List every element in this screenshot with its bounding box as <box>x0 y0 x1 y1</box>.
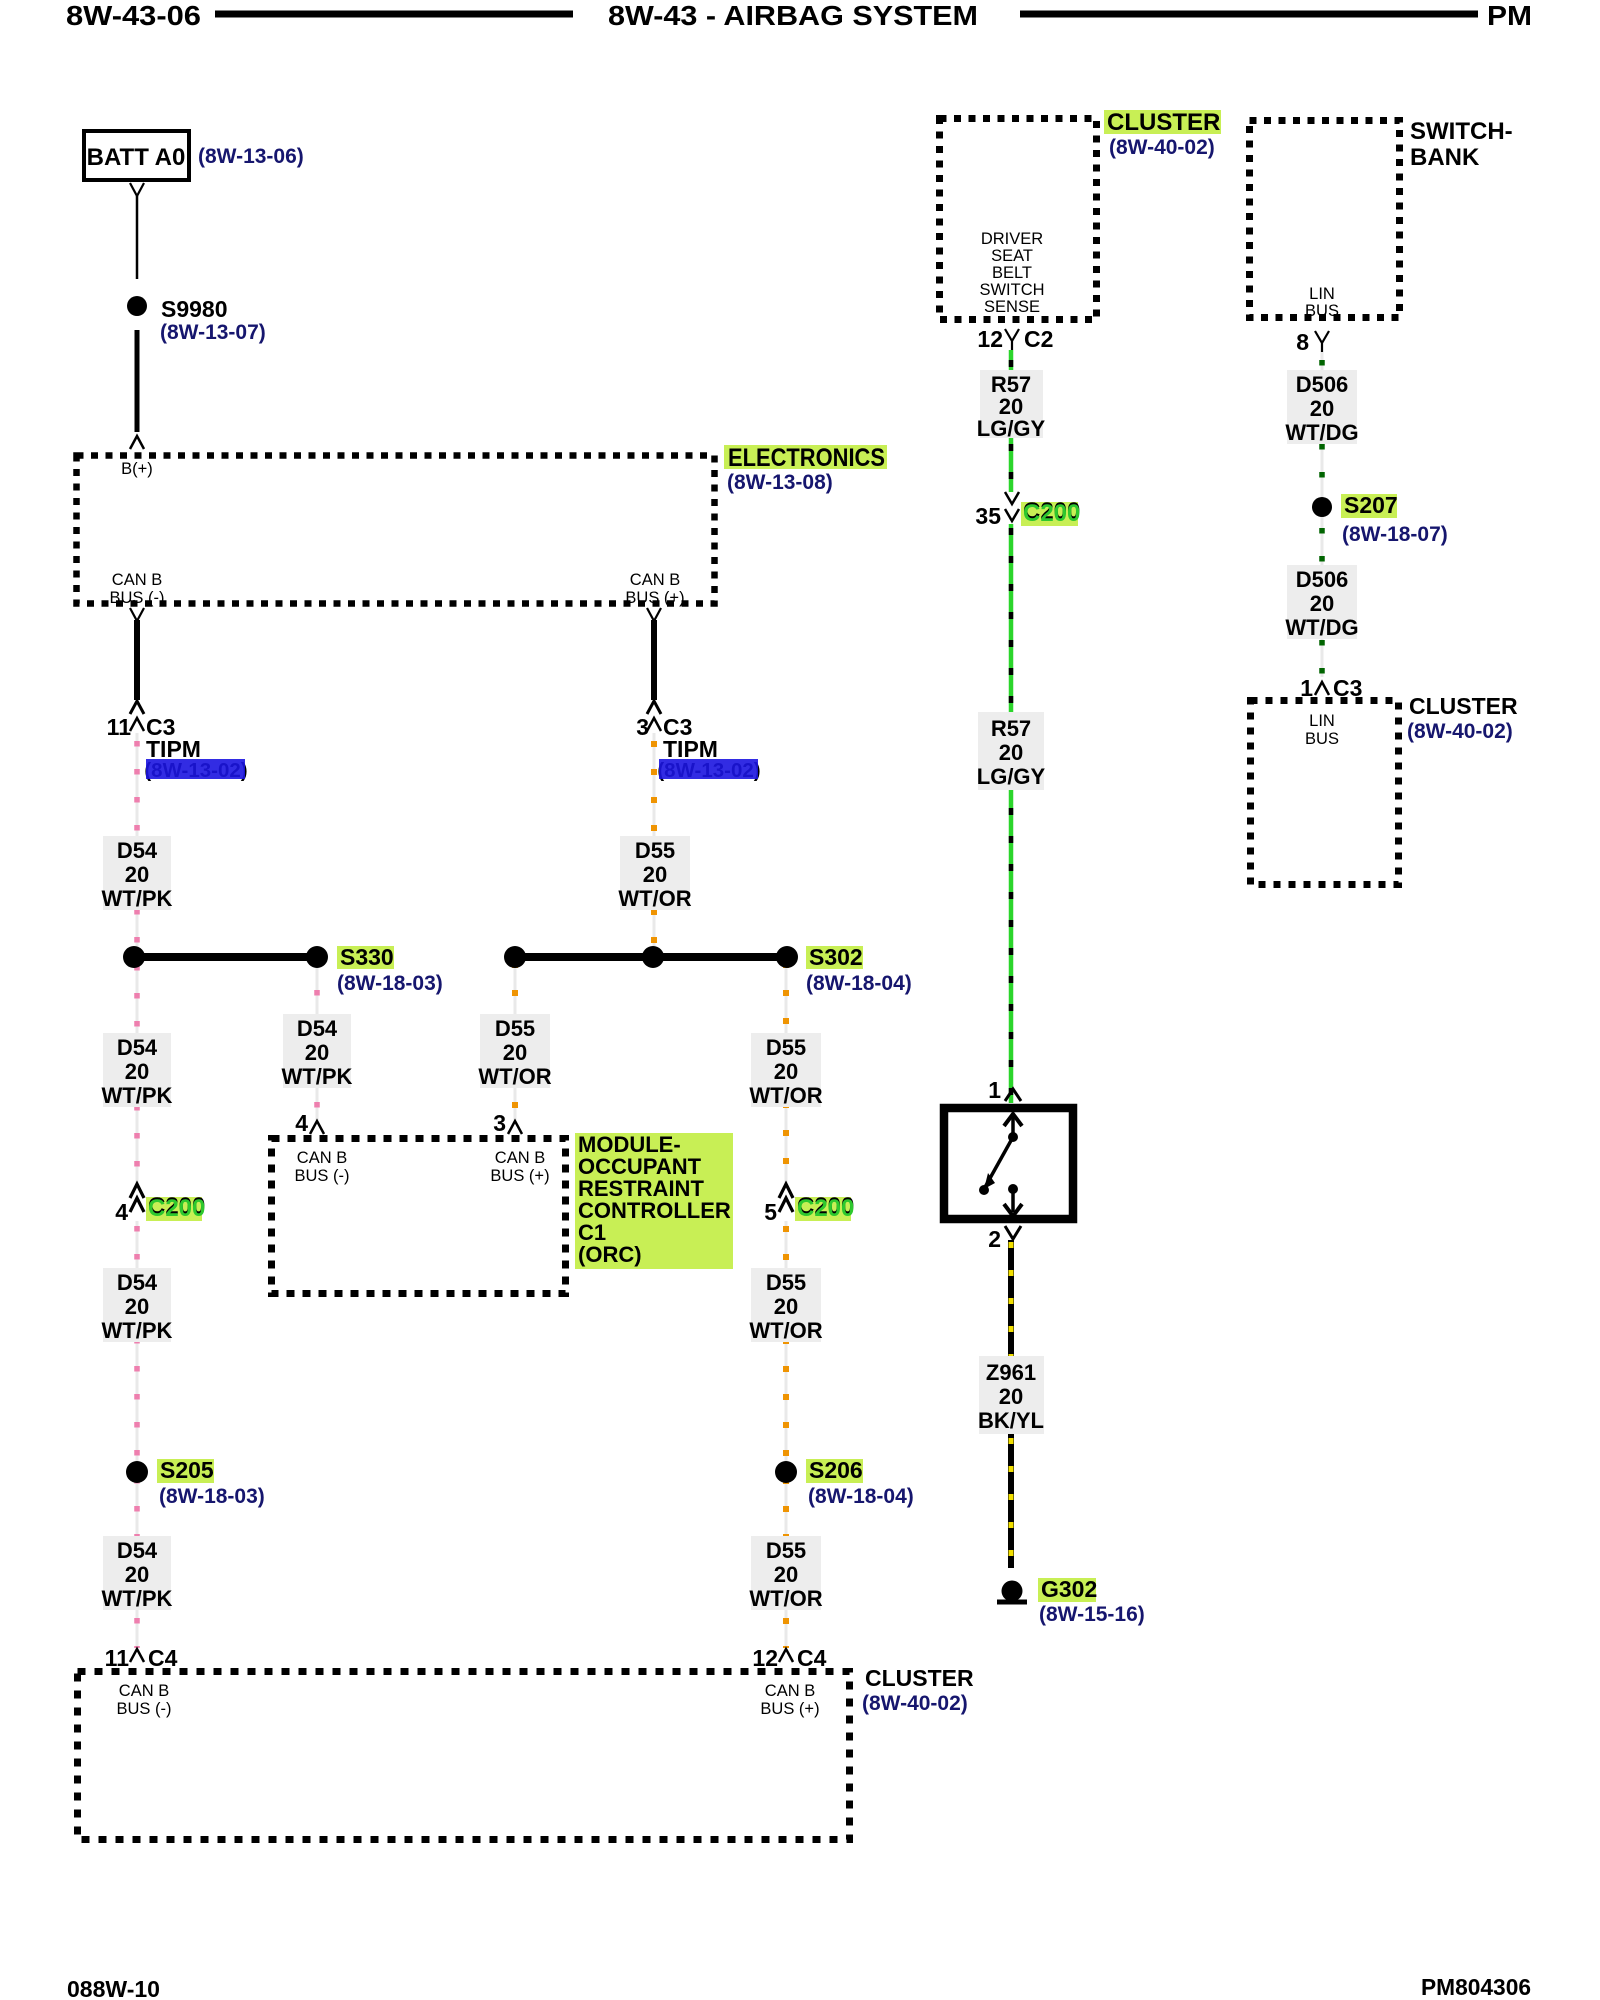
svg-text:BUS (-): BUS (-) <box>117 1700 172 1718</box>
svg-text:B(+): B(+) <box>121 460 153 478</box>
svg-text:11: 11 <box>107 714 132 740</box>
svg-text:20: 20 <box>305 1040 329 1065</box>
svg-text:D506: D506 <box>1296 372 1349 397</box>
svg-text:CAN B: CAN B <box>112 571 162 589</box>
svg-text:20: 20 <box>643 862 667 887</box>
svg-text:WT/PK: WT/PK <box>102 1083 173 1108</box>
svg-text:D54: D54 <box>117 1538 158 1563</box>
svg-text:(8W-18-03): (8W-18-03) <box>337 972 443 995</box>
svg-text:(8W-40-02): (8W-40-02) <box>862 1692 968 1715</box>
svg-text:SWITCH: SWITCH <box>979 281 1044 299</box>
svg-text:D506: D506 <box>1296 567 1349 592</box>
svg-text:PM804306: PM804306 <box>1421 1974 1531 2000</box>
svg-text:WT/OR: WT/OR <box>749 1318 822 1343</box>
svg-text:20: 20 <box>774 1562 798 1587</box>
svg-text:20: 20 <box>774 1294 798 1319</box>
svg-text:WT/DG: WT/DG <box>1285 615 1358 640</box>
svg-text:DRIVER: DRIVER <box>981 230 1043 248</box>
svg-text:D54: D54 <box>117 1035 158 1060</box>
svg-text:D55: D55 <box>766 1270 806 1295</box>
svg-text:LIN: LIN <box>1309 285 1335 303</box>
svg-text:SWITCH-: SWITCH- <box>1410 118 1513 145</box>
svg-text:C4: C4 <box>797 1645 827 1671</box>
svg-text:WT/PK: WT/PK <box>102 1318 173 1343</box>
svg-text:20: 20 <box>774 1059 798 1084</box>
svg-text:1: 1 <box>988 1077 1001 1103</box>
svg-text:S330: S330 <box>340 944 394 970</box>
svg-text:CLUSTER: CLUSTER <box>1409 693 1518 719</box>
svg-text:WT/OR: WT/OR <box>618 886 691 911</box>
svg-text:2: 2 <box>988 1226 1001 1252</box>
svg-text:4: 4 <box>115 1199 128 1225</box>
svg-text:WT/PK: WT/PK <box>282 1064 353 1089</box>
svg-text:CAN B: CAN B <box>297 1149 347 1167</box>
svg-text:CLUSTER: CLUSTER <box>1107 109 1220 136</box>
svg-text:20: 20 <box>125 1294 149 1319</box>
svg-text:8W-43 - AIRBAG SYSTEM: 8W-43 - AIRBAG SYSTEM <box>608 0 978 31</box>
svg-text:11: 11 <box>105 1645 130 1671</box>
svg-text:8W-43-06: 8W-43-06 <box>66 0 201 31</box>
svg-text:4: 4 <box>295 1110 308 1136</box>
svg-text:BUS (-): BUS (-) <box>110 589 165 607</box>
svg-text:SENSE: SENSE <box>984 298 1040 316</box>
svg-text:BANK: BANK <box>1410 144 1480 171</box>
svg-text:20: 20 <box>1310 591 1334 616</box>
svg-text:(8W-18-04): (8W-18-04) <box>806 972 912 995</box>
svg-text:WT/PK: WT/PK <box>102 1586 173 1611</box>
svg-text:C4: C4 <box>148 1645 178 1671</box>
svg-text:20: 20 <box>125 1059 149 1084</box>
svg-text:(8W-18-07): (8W-18-07) <box>1342 523 1448 546</box>
svg-text:20: 20 <box>999 740 1023 765</box>
svg-text:20: 20 <box>125 1562 149 1587</box>
svg-text:S205: S205 <box>160 1457 214 1483</box>
svg-text:CAN B: CAN B <box>630 571 680 589</box>
svg-text:D55: D55 <box>495 1016 535 1041</box>
svg-text:20: 20 <box>125 862 149 887</box>
svg-text:LG/GY: LG/GY <box>977 764 1046 789</box>
svg-text:BUS (+): BUS (+) <box>760 1700 819 1718</box>
svg-text:8: 8 <box>1296 329 1309 355</box>
svg-text:PM: PM <box>1487 0 1532 31</box>
svg-text:(ORC): (ORC) <box>578 1242 642 1267</box>
svg-text:3: 3 <box>636 714 649 740</box>
svg-text:35: 35 <box>975 503 1001 529</box>
svg-text:088W-10: 088W-10 <box>67 1976 160 2000</box>
svg-text:S9980: S9980 <box>161 296 228 322</box>
svg-text:BK/YL: BK/YL <box>978 1408 1044 1433</box>
svg-text:BUS (+): BUS (+) <box>490 1167 549 1185</box>
svg-text:D54: D54 <box>297 1016 338 1041</box>
svg-text:20: 20 <box>999 1384 1023 1409</box>
svg-text:S302: S302 <box>809 944 863 970</box>
svg-text:BELT: BELT <box>992 264 1032 282</box>
svg-text:SEAT: SEAT <box>991 247 1033 265</box>
svg-text:20: 20 <box>503 1040 527 1065</box>
svg-text:12: 12 <box>977 326 1003 352</box>
svg-text:D54: D54 <box>117 1270 158 1295</box>
svg-text:BUS: BUS <box>1305 730 1339 748</box>
svg-text:D54: D54 <box>117 838 158 863</box>
svg-text:CAN B: CAN B <box>119 1682 169 1700</box>
svg-text:C200: C200 <box>1023 500 1080 527</box>
svg-text:(8W-13-08): (8W-13-08) <box>727 471 833 494</box>
svg-text:BUS (+): BUS (+) <box>625 589 684 607</box>
svg-text:(8W-13-06): (8W-13-06) <box>198 145 304 168</box>
svg-text:LIN: LIN <box>1309 712 1335 730</box>
svg-text:CAN B: CAN B <box>765 1682 815 1700</box>
svg-text:(8W-40-02): (8W-40-02) <box>1407 720 1513 743</box>
svg-text:(8W-15-16): (8W-15-16) <box>1039 1603 1145 1626</box>
svg-text:(8W-18-03): (8W-18-03) <box>159 1485 265 1508</box>
svg-text:CAN B: CAN B <box>495 1149 545 1167</box>
svg-text:LG/GY: LG/GY <box>977 416 1046 441</box>
svg-text:ELECTRONICS: ELECTRONICS <box>728 444 885 472</box>
svg-text:(8W-18-04): (8W-18-04) <box>808 1485 914 1508</box>
svg-text:WT/OR: WT/OR <box>478 1064 551 1089</box>
svg-text:CLUSTER: CLUSTER <box>865 1665 974 1691</box>
svg-text:WT/OR: WT/OR <box>749 1586 822 1611</box>
svg-text:Z961: Z961 <box>986 1360 1036 1385</box>
svg-text:12: 12 <box>752 1645 778 1671</box>
svg-text:D55: D55 <box>766 1538 806 1563</box>
svg-text:BUS: BUS <box>1305 302 1339 320</box>
svg-text:D55: D55 <box>766 1035 806 1060</box>
svg-text:S207: S207 <box>1344 492 1398 518</box>
svg-text:BUS (-): BUS (-) <box>295 1167 350 1185</box>
svg-text:3: 3 <box>493 1110 506 1136</box>
svg-text:WT/DG: WT/DG <box>1285 420 1358 445</box>
svg-text:20: 20 <box>1310 396 1334 421</box>
svg-text:WT/OR: WT/OR <box>749 1083 822 1108</box>
svg-text:C2: C2 <box>1024 326 1053 352</box>
svg-text:R57: R57 <box>991 716 1031 741</box>
svg-text:C200: C200 <box>797 1195 854 1222</box>
svg-text:(8W-13-07): (8W-13-07) <box>160 321 266 344</box>
svg-text:S206: S206 <box>809 1457 863 1483</box>
svg-text:5: 5 <box>764 1199 777 1225</box>
svg-text:D55: D55 <box>635 838 675 863</box>
svg-text:G302: G302 <box>1041 1576 1097 1602</box>
svg-text:BATT A0: BATT A0 <box>87 144 186 171</box>
svg-text:WT/PK: WT/PK <box>102 886 173 911</box>
svg-text:C200: C200 <box>148 1195 205 1222</box>
svg-text:(8W-40-02): (8W-40-02) <box>1109 136 1215 159</box>
